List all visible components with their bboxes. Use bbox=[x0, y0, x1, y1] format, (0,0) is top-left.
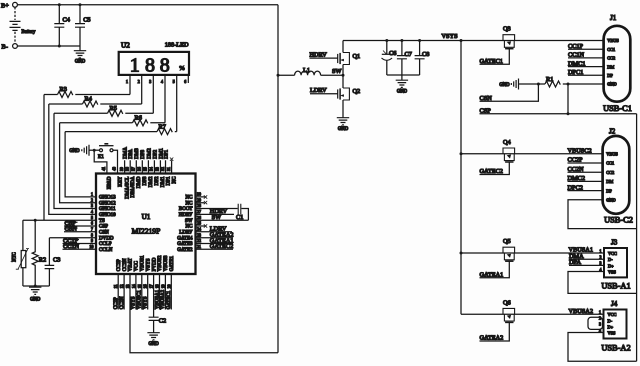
svg-text:GATE4: GATE4 bbox=[177, 236, 193, 241]
svg-text:31: 31 bbox=[167, 167, 171, 171]
junction C4/B+ bbox=[58, 3, 61, 6]
node DPC2 wire bbox=[568, 184, 603, 191]
connector J4 USB-A2 bbox=[601, 300, 630, 353]
svg-text:CCLP: CCLP bbox=[99, 242, 112, 247]
svg-text:37: 37 bbox=[132, 167, 136, 171]
junction CSP tap bbox=[567, 83, 570, 86]
svg-text:GATE2: GATE2 bbox=[177, 248, 193, 253]
svg-text:C2: C2 bbox=[159, 318, 166, 325]
node CC1N wire bbox=[568, 52, 604, 59]
svg-text:DP1: DP1 bbox=[164, 149, 169, 158]
svg-text:36: 36 bbox=[138, 167, 142, 171]
no-connect mark pin29 bbox=[204, 201, 207, 204]
U1 top pin numbers bbox=[120, 167, 171, 171]
svg-text:24: 24 bbox=[197, 228, 201, 232]
svg-text:39: 39 bbox=[120, 167, 124, 171]
svg-text:VBUSC1: VBUSC1 bbox=[138, 290, 143, 310]
svg-text:VSYS: VSYS bbox=[442, 33, 459, 40]
svg-text:CC2P: CC2P bbox=[117, 259, 122, 271]
svg-text:2: 2 bbox=[138, 80, 140, 84]
wire B- rail bbox=[17, 45, 80, 47]
ground at R1 bbox=[499, 79, 518, 90]
junction VSYS branch bbox=[460, 39, 463, 42]
LED display U2 bbox=[119, 42, 189, 77]
wire C5 to ground bbox=[79, 46, 81, 50]
no-connect mark pin30 bbox=[204, 195, 207, 198]
svg-text:GPIO13: GPIO13 bbox=[99, 196, 116, 201]
svg-text:VBUSA2: VBUSA2 bbox=[161, 289, 166, 309]
svg-text:CC2N: CC2N bbox=[123, 258, 128, 271]
svg-text:DP1: DP1 bbox=[166, 176, 171, 185]
resistor R2 bbox=[32, 220, 46, 286]
svg-text:VSYS: VSYS bbox=[144, 296, 149, 309]
wire K1 to KEY pin40 bbox=[113, 150, 118, 173]
svg-text:3: 3 bbox=[599, 323, 601, 327]
svg-text:SW: SW bbox=[332, 68, 342, 75]
svg-text:25: 25 bbox=[197, 222, 201, 226]
wire J3 VSS loop bbox=[568, 272, 637, 294]
svg-text:DMA/SCL: DMA/SCL bbox=[125, 177, 130, 199]
svg-text:GPIO10: GPIO10 bbox=[99, 213, 116, 218]
node LDRV bbox=[196, 226, 233, 233]
node SW wire bbox=[321, 68, 343, 75]
svg-text:HDRV: HDRV bbox=[179, 213, 193, 218]
U2 pin 3 stub bbox=[152, 75, 154, 113]
node GATEA1 pin22 bbox=[196, 237, 234, 244]
svg-text:R2: R2 bbox=[39, 257, 46, 264]
node CC1N pin10 bbox=[63, 243, 97, 250]
svg-text:Q2: Q2 bbox=[353, 88, 361, 95]
svg-text:NTC: NTC bbox=[13, 252, 18, 261]
svg-text:35: 35 bbox=[144, 167, 148, 171]
inductor L1 bbox=[278, 67, 321, 75]
capacitor C1 bbox=[236, 204, 243, 221]
junction C4/B- bbox=[58, 45, 61, 48]
svg-text:3: 3 bbox=[149, 80, 151, 84]
wire TS line bbox=[23, 219, 96, 221]
svg-text:VBUS2: VBUS2 bbox=[158, 255, 163, 271]
junction C8 top bbox=[418, 39, 421, 42]
svg-text:VSYS: VSYS bbox=[146, 258, 151, 271]
svg-text:5: 5 bbox=[173, 80, 175, 84]
svg-text:C3: C3 bbox=[53, 257, 60, 264]
svg-text:GND: GND bbox=[75, 60, 86, 65]
svg-text:D+: D+ bbox=[608, 263, 614, 268]
svg-text:EPAD: EPAD bbox=[108, 176, 113, 189]
resistor R3 bbox=[44, 86, 130, 97]
svg-text:Q5: Q5 bbox=[503, 238, 511, 245]
svg-text:VSYS: VSYS bbox=[132, 296, 137, 309]
svg-text:VBUS: VBUS bbox=[606, 152, 618, 157]
svg-text:VBUSA2: VBUSA2 bbox=[569, 308, 594, 315]
capacitor C7 bbox=[397, 41, 412, 76]
svg-text:GND: GND bbox=[69, 149, 80, 154]
svg-text:CSN: CSN bbox=[99, 231, 109, 236]
ground below C2 bbox=[147, 332, 159, 348]
node DMC1 wire bbox=[568, 60, 604, 67]
U1 bottom pin numbers bbox=[114, 284, 171, 288]
svg-text:DPA/SDA: DPA/SDA bbox=[131, 176, 136, 197]
capacitor C8 bbox=[415, 41, 430, 76]
svg-text:GATEC1: GATEC1 bbox=[480, 58, 503, 65]
svg-text:CC1: CC1 bbox=[607, 47, 615, 52]
node GATEC2 bbox=[480, 162, 510, 175]
svg-text:4: 4 bbox=[161, 80, 163, 84]
U1 bottom pin names bbox=[117, 255, 175, 271]
svg-text:GATEC2: GATEC2 bbox=[480, 168, 503, 175]
wire VBUSA1 row bbox=[461, 252, 604, 254]
node CSP wire bbox=[480, 84, 637, 115]
svg-text:GND: GND bbox=[397, 90, 408, 95]
svg-text:21: 21 bbox=[197, 245, 201, 249]
svg-text:1: 1 bbox=[599, 310, 601, 314]
junction EPAD branch bbox=[93, 149, 96, 152]
svg-text:C4: C4 bbox=[63, 17, 71, 24]
svg-text:CCLN: CCLN bbox=[99, 248, 113, 253]
svg-text:PVDD: PVDD bbox=[152, 257, 157, 271]
U1 left pin names bbox=[99, 196, 116, 253]
terminal B+ bbox=[1, 2, 17, 9]
node DPA wire bbox=[569, 259, 604, 266]
wire J4 VSS loop bbox=[568, 333, 637, 362]
wire R3 to GPIO pin5 TS bbox=[43, 95, 45, 221]
svg-text:Q1: Q1 bbox=[353, 53, 361, 60]
svg-text:10: 10 bbox=[90, 245, 94, 249]
wire VBUSC2 row bbox=[461, 153, 603, 155]
node DMC2 wire bbox=[568, 175, 603, 182]
junction CSP corner bbox=[567, 112, 570, 115]
svg-text:K1: K1 bbox=[98, 155, 104, 160]
wire C1 to SW bbox=[241, 209, 248, 221]
junction SW node bbox=[342, 74, 345, 77]
svg-text:VCC: VCC bbox=[608, 312, 617, 317]
junction CSN tap bbox=[537, 83, 540, 86]
U2 pin 5 stub bbox=[176, 75, 178, 132]
node CSP pin6 bbox=[64, 220, 96, 227]
svg-text:VCC: VCC bbox=[135, 260, 140, 271]
svg-text:8: 8 bbox=[145, 55, 155, 77]
svg-text:1: 1 bbox=[126, 80, 128, 84]
svg-text:DVDD: DVDD bbox=[99, 236, 114, 241]
svg-text:29: 29 bbox=[197, 198, 201, 202]
svg-text:J1: J1 bbox=[610, 14, 617, 22]
junction Q4 branch bbox=[460, 152, 463, 155]
svg-text:CC2: CC2 bbox=[606, 170, 614, 175]
svg-text:188-LED: 188-LED bbox=[165, 42, 189, 49]
transistor Q5 bbox=[503, 238, 515, 261]
J4 data jumper bbox=[588, 317, 603, 329]
svg-text:38: 38 bbox=[126, 167, 130, 171]
no-connect mark pin25 bbox=[204, 224, 207, 227]
svg-text:GATEC1: GATEC1 bbox=[167, 290, 172, 309]
node DPC1 wire bbox=[568, 69, 604, 76]
svg-text:5: 5 bbox=[91, 216, 93, 220]
U1 bottom pin stubs bbox=[118, 274, 171, 310]
svg-text:NC: NC bbox=[186, 225, 194, 230]
connector J1 USB-C1 bbox=[603, 14, 632, 113]
U1 right stubs NC pins bbox=[196, 197, 205, 226]
svg-text:1: 1 bbox=[600, 249, 602, 253]
svg-text:30: 30 bbox=[197, 193, 201, 197]
svg-text:J4: J4 bbox=[611, 300, 618, 308]
node HDRV at Q1 gate bbox=[310, 52, 338, 59]
node GATEA1 bbox=[480, 261, 510, 278]
wire BOOT pin28 to C1 bbox=[196, 208, 238, 210]
svg-text:8: 8 bbox=[160, 55, 170, 77]
terminal B- bbox=[2, 44, 18, 51]
svg-text:DP: DP bbox=[606, 188, 612, 193]
svg-text:DM2: DM2 bbox=[147, 148, 152, 159]
ground at K1 bbox=[69, 145, 89, 156]
U1 right pin numbers bbox=[197, 193, 201, 249]
svg-text:DP2: DP2 bbox=[153, 149, 158, 158]
svg-text:41: 41 bbox=[102, 167, 106, 171]
node CSN wire bbox=[480, 84, 539, 102]
svg-text:VBUS3: VBUS3 bbox=[164, 255, 169, 271]
svg-text:DM3: DM3 bbox=[135, 148, 140, 159]
svg-text:GND: GND bbox=[499, 83, 510, 88]
svg-text:U2: U2 bbox=[121, 42, 130, 50]
wire B+ rail bbox=[17, 4, 278, 6]
svg-text:USB-A2: USB-A2 bbox=[601, 344, 630, 353]
svg-text:NC: NC bbox=[186, 201, 194, 206]
resistor R4 bbox=[49, 96, 142, 107]
node CSN pin7 bbox=[64, 226, 96, 233]
svg-text:DM: DM bbox=[607, 64, 614, 69]
svg-text:26: 26 bbox=[197, 216, 201, 220]
svg-text:D-: D- bbox=[608, 257, 613, 262]
svg-text:C7: C7 bbox=[405, 51, 412, 58]
svg-text:2: 2 bbox=[91, 198, 93, 202]
U2 pin 1 stub bbox=[129, 75, 131, 95]
junction ground rail bbox=[34, 285, 37, 288]
transistor Q1 bbox=[338, 41, 361, 76]
node DMA wire bbox=[569, 253, 604, 260]
svg-text:23: 23 bbox=[197, 233, 201, 237]
svg-text:VCC: VCC bbox=[608, 251, 617, 256]
svg-text:27: 27 bbox=[197, 210, 201, 214]
svg-text:GND: GND bbox=[30, 298, 41, 303]
svg-text:32: 32 bbox=[161, 167, 165, 171]
svg-text:GND: GND bbox=[338, 127, 349, 132]
svg-text:1: 1 bbox=[91, 193, 93, 197]
U2 pin 6 stub bbox=[187, 75, 189, 83]
svg-text:B+: B+ bbox=[1, 2, 9, 9]
key switch K1 bbox=[98, 144, 114, 160]
svg-text:GPIO11: GPIO11 bbox=[99, 207, 116, 212]
svg-text:CC2N: CC2N bbox=[120, 296, 125, 309]
junction L1 tap on B+ rail bbox=[277, 74, 280, 77]
junction R2 top bbox=[34, 219, 37, 222]
U2 pin 2 stub bbox=[141, 75, 143, 104]
wire B+ vertical rail bbox=[277, 5, 279, 353]
svg-text:GATEA1: GATEA1 bbox=[480, 272, 504, 279]
capacitor C5 bbox=[75, 5, 91, 46]
svg-text:J2: J2 bbox=[609, 127, 616, 135]
svg-text:DMD: DMD bbox=[137, 176, 142, 188]
svg-text:VSS: VSS bbox=[608, 331, 616, 336]
U1 top pin names bbox=[108, 176, 178, 199]
capacitor C6 bbox=[382, 41, 397, 76]
svg-text:Q4: Q4 bbox=[503, 139, 512, 146]
svg-text:GATEA2: GATEA2 bbox=[480, 335, 504, 342]
svg-text:TS: TS bbox=[99, 219, 105, 224]
connector J2 USB-C2 bbox=[603, 127, 633, 224]
svg-text:NC: NC bbox=[186, 196, 194, 201]
svg-text:GND: GND bbox=[606, 198, 615, 203]
node LDRV at Q2 gate bbox=[310, 87, 338, 94]
capacitor C4 bbox=[54, 5, 70, 46]
svg-text:VBUS: VBUS bbox=[607, 38, 619, 43]
node CC1P pin9 bbox=[63, 237, 97, 244]
resistor R7 bbox=[65, 123, 177, 134]
resistor R6 bbox=[60, 114, 165, 125]
ground below Q2 bbox=[337, 117, 349, 133]
svg-text:1: 1 bbox=[130, 55, 140, 77]
battery BT1 bbox=[10, 7, 36, 43]
U1 right pin names bbox=[177, 196, 193, 253]
wire right edge vertical bbox=[636, 114, 638, 362]
svg-text:NC: NC bbox=[172, 176, 177, 184]
svg-text:DP3: DP3 bbox=[143, 176, 148, 185]
svg-text:%: % bbox=[179, 65, 185, 72]
svg-text:D-: D- bbox=[608, 318, 613, 323]
wire GND to K1 bbox=[89, 149, 100, 151]
wire R5 to GPIO11 bbox=[54, 113, 96, 208]
svg-text:VSS: VSS bbox=[608, 269, 616, 274]
transistor Q4 bbox=[503, 139, 515, 162]
op-amp U1 MI2219P body bbox=[96, 174, 196, 275]
svg-text:6: 6 bbox=[184, 80, 186, 84]
svg-text:USB-C1: USB-C1 bbox=[603, 104, 632, 113]
transistor Q6 bbox=[503, 299, 515, 322]
svg-text:34: 34 bbox=[150, 167, 154, 171]
U2 pin 4 stub bbox=[164, 75, 166, 123]
node GATEC1 bbox=[480, 49, 510, 65]
node HDRV bbox=[196, 208, 235, 215]
svg-text:22: 22 bbox=[197, 239, 201, 243]
U1 left pin numbers bbox=[90, 193, 94, 249]
wire J2 GND loop bbox=[568, 200, 637, 229]
junction C7 top bbox=[400, 39, 403, 42]
svg-text:VBAT: VBAT bbox=[129, 258, 134, 271]
svg-text:R4: R4 bbox=[85, 96, 93, 103]
svg-text:CSP: CSP bbox=[99, 225, 108, 230]
svg-text:40: 40 bbox=[113, 167, 117, 171]
svg-text:C6: C6 bbox=[389, 50, 396, 57]
svg-text:C8: C8 bbox=[422, 51, 429, 58]
wire capacitor ground rail bbox=[387, 75, 420, 79]
node SW pin26 bbox=[196, 214, 249, 221]
svg-text:7: 7 bbox=[91, 228, 93, 232]
resistor R5 bbox=[54, 105, 153, 116]
wire NTC/R2/C3 ground rail bbox=[23, 285, 50, 287]
transistor Q3 bbox=[503, 26, 515, 49]
svg-text:CC2P: CC2P bbox=[114, 297, 119, 309]
svg-text:D+: D+ bbox=[608, 324, 614, 329]
svg-text:VBUSA1: VBUSA1 bbox=[155, 289, 160, 309]
U1 top pin stubs 39-31 bbox=[125, 160, 172, 173]
svg-text:6: 6 bbox=[91, 222, 93, 226]
svg-text:28: 28 bbox=[197, 204, 201, 208]
svg-text:Battery: Battery bbox=[22, 30, 36, 35]
svg-text:DPA: DPA bbox=[129, 149, 134, 159]
wire VBUSA2 row bbox=[461, 313, 604, 315]
resistor R1 bbox=[545, 76, 604, 87]
wire VBAT pin13 to B+ rail bbox=[130, 274, 278, 353]
svg-text:Q3: Q3 bbox=[503, 26, 511, 33]
transistor Q2 bbox=[338, 75, 361, 116]
svg-text:Q6: Q6 bbox=[503, 299, 511, 306]
capacitor C3 bbox=[45, 238, 61, 286]
wire R4 to GPIO10 bbox=[49, 104, 96, 214]
node CC2N wire bbox=[568, 166, 603, 173]
svg-text:8: 8 bbox=[91, 233, 93, 237]
junction C5/B+ bbox=[79, 3, 82, 6]
node GATEC2 pin21 bbox=[196, 243, 234, 250]
node GATEA2 bbox=[480, 322, 510, 341]
wire R7 to GPIO13 bbox=[65, 132, 96, 197]
svg-text:DMA: DMA bbox=[124, 147, 129, 159]
svg-text:33: 33 bbox=[156, 167, 160, 171]
connector J3 USB-A1 bbox=[601, 239, 630, 291]
svg-text:DP2: DP2 bbox=[155, 176, 160, 185]
svg-text:J3: J3 bbox=[611, 239, 618, 247]
svg-text:9: 9 bbox=[91, 239, 93, 243]
svg-text:GND: GND bbox=[607, 82, 616, 87]
ground below C5 bbox=[74, 50, 86, 65]
svg-text:CC2: CC2 bbox=[607, 56, 615, 61]
wire R6 to GPIO12 bbox=[60, 123, 96, 203]
junction Q5 branch bbox=[460, 252, 463, 255]
thermistor NTC bbox=[13, 220, 30, 286]
node CC1P wire bbox=[568, 43, 604, 50]
svg-text:3: 3 bbox=[91, 204, 93, 208]
svg-text:GND: GND bbox=[149, 342, 160, 347]
svg-text:USB-C2: USB-C2 bbox=[604, 216, 633, 225]
svg-text:MI2219P: MI2219P bbox=[132, 227, 161, 236]
svg-text:CC1: CC1 bbox=[606, 161, 614, 166]
svg-text:DM: DM bbox=[606, 179, 613, 184]
svg-text:GATE3: GATE3 bbox=[177, 242, 193, 247]
node GATEA2 pin23 bbox=[196, 232, 234, 239]
J4 pin numbers bbox=[599, 310, 601, 332]
no-connect mark pin31 bbox=[170, 158, 173, 161]
svg-text:B-: B- bbox=[2, 44, 8, 51]
node CC2P wire bbox=[568, 157, 603, 164]
svg-text:4: 4 bbox=[91, 210, 93, 214]
capacitor C2 bbox=[149, 274, 167, 332]
svg-text:DP3: DP3 bbox=[141, 149, 146, 158]
wire VSYS rail bbox=[343, 40, 604, 42]
svg-text:GPIO12: GPIO12 bbox=[99, 201, 116, 206]
ground below C7 bbox=[396, 79, 408, 95]
svg-text:VBUSC2: VBUSC2 bbox=[568, 148, 592, 155]
svg-text:VBUS1: VBUS1 bbox=[141, 255, 146, 271]
svg-text:DM2: DM2 bbox=[149, 176, 154, 187]
wire EPAD pin41 bbox=[94, 150, 107, 173]
svg-text:USB-A1: USB-A1 bbox=[601, 282, 630, 291]
wire C3 to DVDD pin8 bbox=[49, 237, 96, 239]
svg-text:DP: DP bbox=[607, 73, 613, 78]
svg-text:U1: U1 bbox=[142, 213, 151, 221]
svg-text:SW: SW bbox=[185, 219, 193, 224]
junction C6 top bbox=[385, 39, 388, 42]
svg-text:BOOT: BOOT bbox=[179, 207, 193, 212]
svg-text:KEY: KEY bbox=[118, 176, 123, 187]
ground below R2 bbox=[29, 286, 41, 303]
svg-text:C5: C5 bbox=[83, 17, 90, 24]
